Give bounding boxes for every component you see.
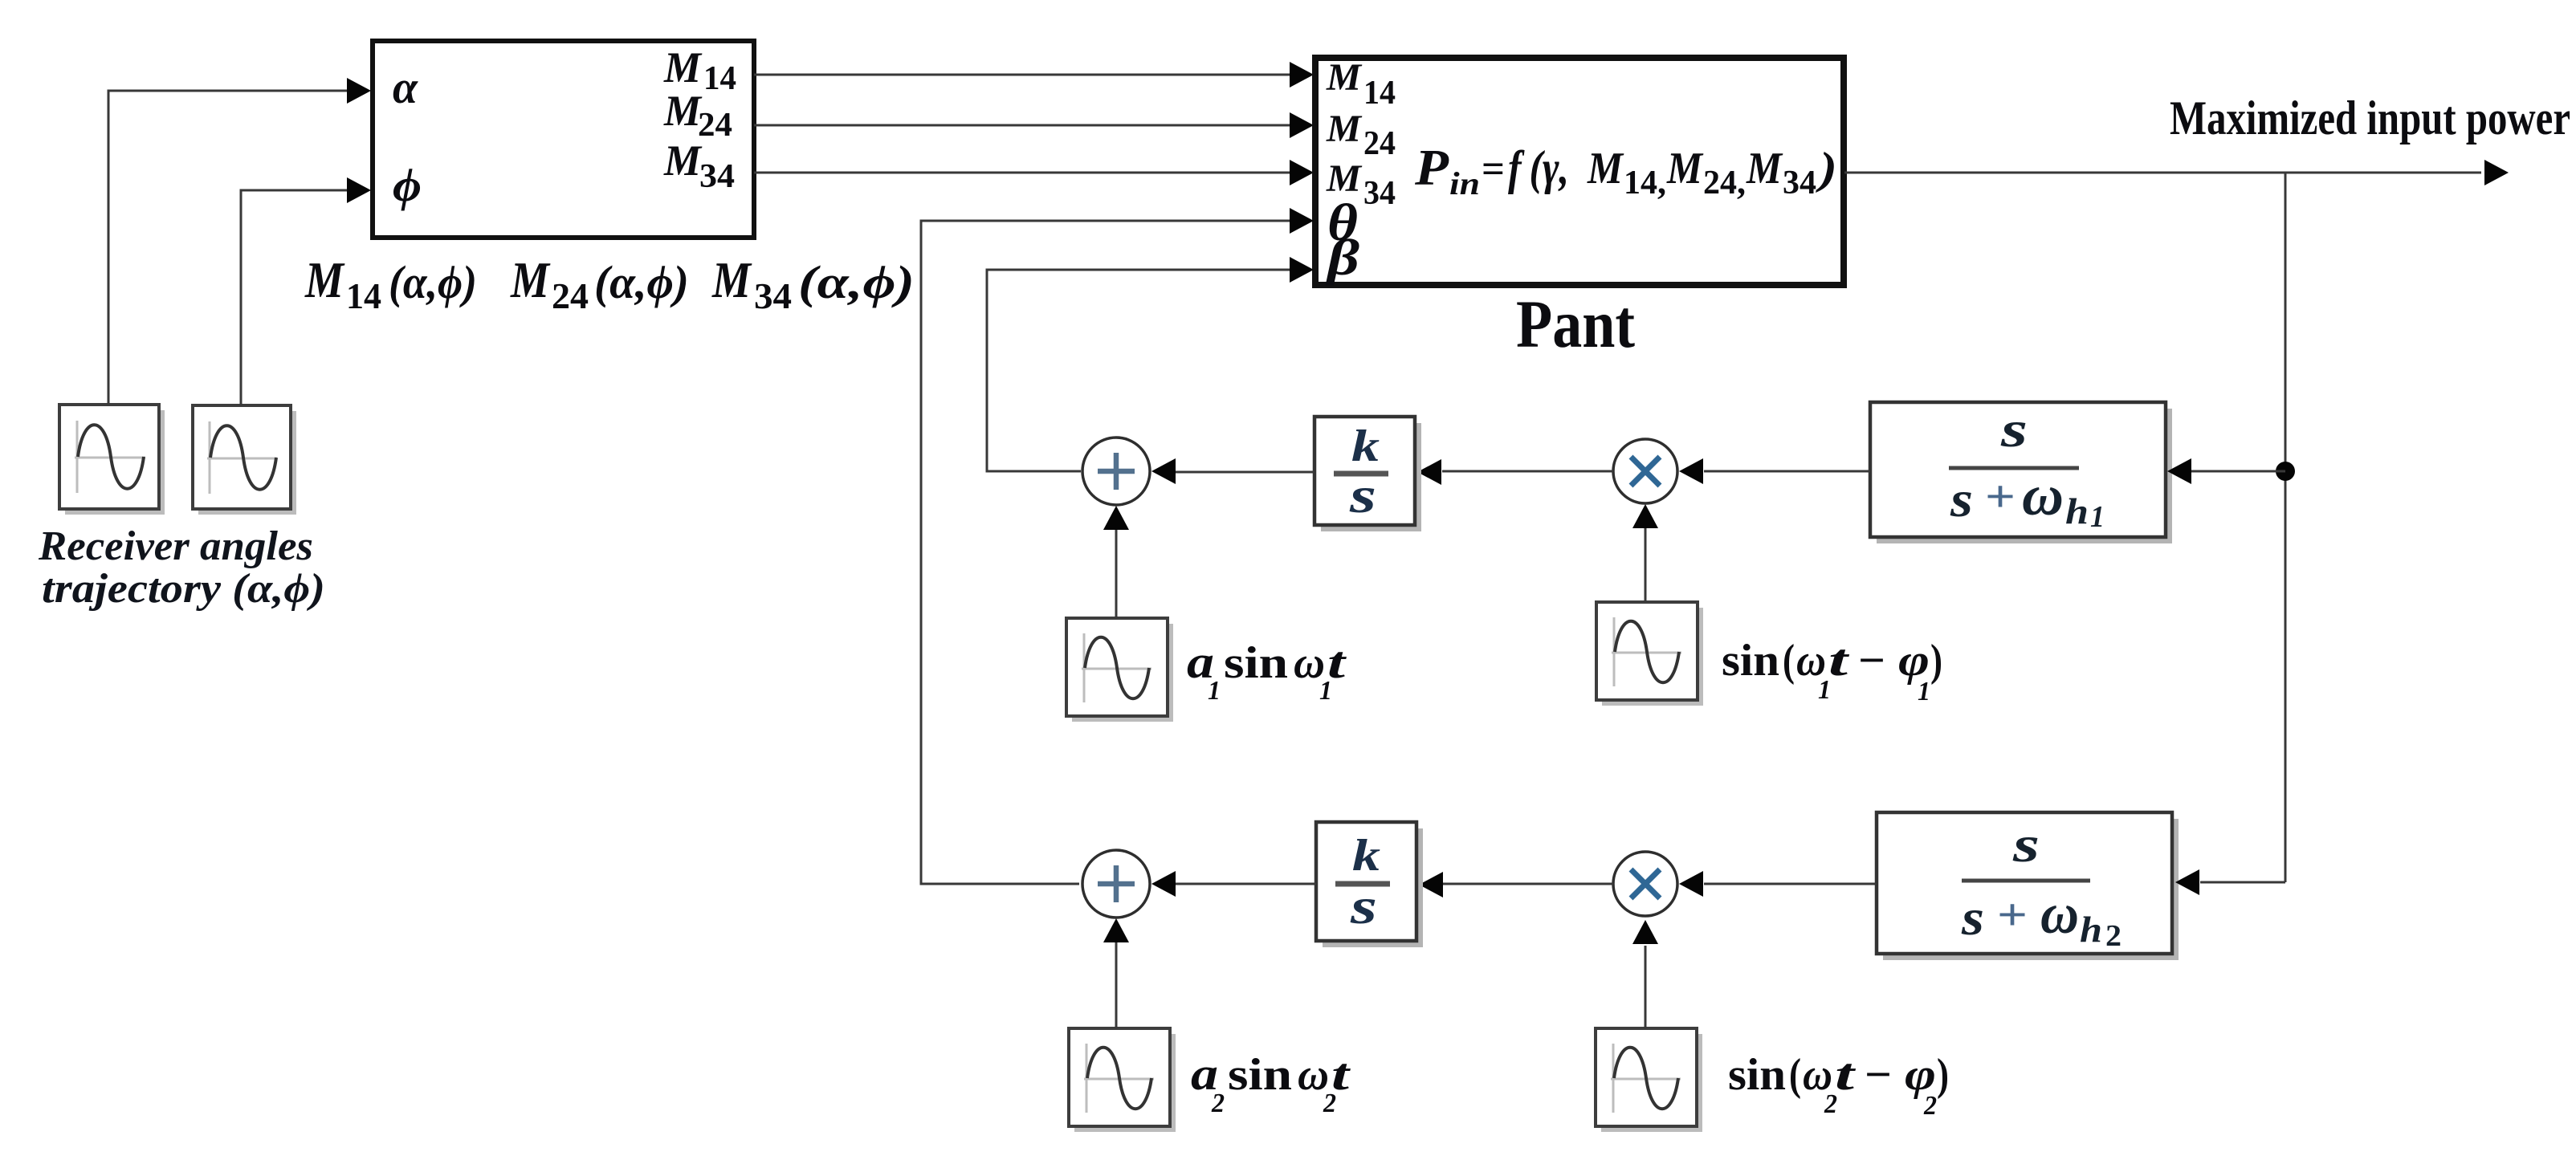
wire: sine to multiplier2 bottom (1632, 920, 1658, 1028)
svg-text:2: 2 (1923, 1091, 1937, 1121)
svg-text:,: , (1737, 162, 1746, 201)
sine source a2 sin w2t (1069, 1028, 1176, 1132)
wire: feedback tap to s/(s+wh2) right side (2175, 869, 2285, 895)
gain block k/s row1 (1314, 417, 1421, 531)
svg-text:M: M (663, 87, 703, 135)
svg-text:s: s (1349, 466, 1376, 523)
wire: k/s row1 to sum1 (1151, 458, 1314, 484)
label Maximized input power (2170, 92, 2570, 144)
wire: multiplier2 to k/s block2 (1419, 872, 1613, 897)
wire: sine to multiplier1 bottom (1632, 504, 1658, 602)
svg-text:s: s (1350, 877, 1377, 934)
block A: M(alpha,phi) matrix block (373, 41, 754, 238)
label M24 (block A output port) (663, 87, 732, 144)
svg-text:k: k (1352, 831, 1380, 881)
wire M14: block A to Pant (754, 62, 1314, 88)
label M24 (Pant input port) (1326, 108, 1396, 162)
svg-text:): ) (1937, 1050, 1949, 1100)
svg-text:,: , (1657, 162, 1666, 201)
svg-text:M: M (663, 136, 703, 185)
svg-text:M: M (1587, 144, 1624, 193)
wire: multiplier1 to k/s block1 (1417, 459, 1613, 485)
svg-text:sin: sin (1728, 1050, 1786, 1100)
svg-text:s: s (1961, 889, 1984, 946)
gain block k/s row2 (1316, 822, 1423, 947)
svg-text:=: = (1482, 146, 1505, 191)
wire M34: block A to Pant (754, 160, 1314, 185)
sum junction sum2 circle with plus (1082, 850, 1150, 918)
svg-text:): ) (1930, 636, 1942, 686)
svg-text:24: 24 (1703, 165, 1737, 201)
svg-text:−: − (1865, 1050, 1892, 1100)
svg-text:14: 14 (1363, 75, 1396, 112)
svg-text:t: t (1835, 1050, 1856, 1100)
sine source sin(w2t-phi2) (1596, 1028, 1702, 1132)
multiplier product2 circle (1613, 852, 1677, 916)
svg-text:ω: ω (2022, 463, 2064, 527)
svg-text:(: ( (1789, 1050, 1801, 1100)
svg-text:−: − (1858, 636, 1885, 686)
svg-text:t: t (1828, 636, 1849, 686)
wire phi: from Sine-phi up and right into block A (241, 177, 371, 405)
transfer block s/(s+wh1) (1870, 401, 2172, 543)
svg-text:h: h (2065, 490, 2089, 531)
wire M24: block A to Pant (754, 112, 1314, 138)
wire: sine a2 to sum2 bottom (1103, 918, 1129, 1028)
formula Pin = f(gamma, M14, M24, M34) inside Pant (1414, 139, 1837, 201)
label sin(w2t - phi2) (1728, 1050, 1949, 1121)
svg-text:M: M (663, 43, 703, 92)
svg-text:M: M (1666, 144, 1704, 193)
caption Receiver angles trajectory (alpha,phi) (38, 523, 325, 612)
svg-text:s: s (1950, 470, 1973, 527)
svg-text:+: + (1985, 472, 2016, 522)
label a1 sin w1t (1187, 636, 1347, 706)
sum junction sum1 circle with plus (1082, 438, 1150, 505)
svg-text:2: 2 (2105, 919, 2122, 953)
sine source sin(w1t-phi1) (1596, 602, 1703, 706)
svg-text:2: 2 (1211, 1089, 1225, 1118)
svg-text:Pant: Pant (1516, 287, 1635, 362)
wire: sine a1 to sum1 bottom (1103, 506, 1129, 618)
svg-text:1: 1 (2090, 500, 2105, 534)
svg-text:24: 24 (552, 275, 589, 316)
wire alpha: from Sine-alpha up and right into block A (108, 78, 371, 405)
svg-text:1: 1 (1208, 676, 1221, 706)
svg-text:34: 34 (1783, 165, 1816, 201)
svg-text:s: s (2000, 401, 2028, 458)
svg-text:(α,ϕ): (α,ϕ) (798, 256, 915, 308)
sine source a1 sin w1t (1066, 618, 1173, 722)
junction node on feedback tap (2276, 462, 2295, 481)
sine source block Sine-alpha (59, 405, 165, 515)
svg-text:s: s (2012, 816, 2040, 873)
label Pant under block (1516, 287, 1635, 362)
svg-text:t: t (1327, 638, 1347, 688)
svg-text:14: 14 (703, 60, 736, 97)
svg-text:M: M (1326, 56, 1363, 99)
svg-text:Maximized input power: Maximized input power (2170, 92, 2570, 144)
svg-text:t: t (1331, 1050, 1351, 1100)
svg-text:Receiver angles: Receiver angles (38, 523, 313, 569)
svg-text:ω: ω (2040, 881, 2079, 946)
svg-text:α: α (393, 61, 418, 113)
label M14 (Pant input port) (1326, 56, 1396, 112)
svg-text:M: M (1326, 108, 1363, 150)
svg-text:24: 24 (698, 107, 732, 144)
svg-text:P: P (1414, 139, 1449, 196)
label a2 sin w2t (1191, 1048, 1351, 1118)
transfer block s/(s+wh2) (1877, 812, 2179, 960)
svg-text:+: + (1997, 890, 2028, 940)
label alpha (block A input port) (393, 61, 418, 113)
svg-text:34: 34 (1363, 175, 1396, 212)
wire: s/(s+wh2) to multiplier2 (1679, 871, 1877, 897)
wire: junction to s/(s+wh1) right side (2167, 458, 2285, 484)
svg-text:24: 24 (1363, 125, 1396, 162)
svg-text:14: 14 (1624, 165, 1657, 201)
caption M14(a,phi) M24(a,phi) M34(a,phi) under block A (304, 251, 915, 316)
svg-text:M: M (304, 251, 345, 308)
wire output: Pant to right edge arrow (1844, 160, 2509, 185)
svg-text:14: 14 (346, 275, 381, 316)
multiplier product1 circle (1613, 439, 1677, 503)
svg-text:(α,ϕ): (α,ϕ) (389, 256, 477, 308)
label beta (Pant input port) (1326, 229, 1360, 286)
svg-text:sin: sin (1722, 636, 1779, 686)
svg-text:M: M (1746, 144, 1783, 193)
wire: k/s row2 to sum2 (1151, 871, 1316, 897)
label sin(w1t - phi1) (1722, 636, 1942, 706)
svg-text:M: M (510, 251, 551, 308)
label M14 (block A output port) (663, 43, 736, 97)
svg-text:1: 1 (1918, 677, 1930, 706)
svg-text:k: k (1351, 421, 1380, 471)
svg-text:(α,ϕ): (α,ϕ) (594, 256, 689, 308)
svg-text:34: 34 (699, 158, 735, 195)
wire feedback tap: vertical line from output down to row2 (2285, 173, 2287, 882)
svg-text:f (γ,: f (γ, (1508, 141, 1569, 194)
svg-text:sin: sin (1228, 1050, 1292, 1100)
svg-text:(: ( (1783, 636, 1795, 686)
svg-text:h: h (2080, 909, 2102, 950)
label M34 (Pant input port) (1326, 157, 1396, 212)
wire theta: from sum2 output up into Pant theta port (921, 208, 1314, 884)
svg-text:sin: sin (1224, 638, 1288, 688)
label M34 (block A output port) (663, 136, 735, 195)
svg-text:M: M (711, 251, 752, 308)
label phi (block A input port) (393, 159, 422, 211)
Pant block (1315, 58, 1844, 285)
svg-text:trajectory (α,ϕ): trajectory (α,ϕ) (42, 566, 325, 612)
wire beta: from sum1 output up into Pant beta port (987, 257, 1314, 471)
sine source block Sine-phi (193, 405, 296, 515)
wire: s/(s+wh1) to multiplier1 (1679, 458, 1870, 484)
svg-text:β: β (1326, 229, 1360, 286)
svg-text:ϕ: ϕ (393, 159, 422, 211)
svg-text:in: in (1449, 165, 1480, 201)
label theta (Pant input port) (1327, 193, 1358, 252)
svg-text:34: 34 (754, 275, 792, 316)
